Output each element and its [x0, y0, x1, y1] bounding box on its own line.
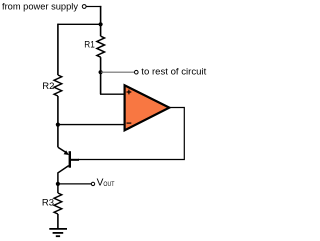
wire: R1 bottom through node B down to + input corner — [100, 57, 102, 94]
node B junction dot — [99, 70, 103, 74]
wire: R3 bottom to ground — [57, 214, 59, 228]
transistor Q1 collector lead — [58, 166, 69, 193]
wire: down to R2 top — [57, 24, 59, 75]
terminal: Vout — [91, 182, 94, 185]
wire: node A left to R2 branch — [58, 23, 101, 25]
op-amp - input mark — [127, 122, 132, 124]
wire: top rail down to R1 — [100, 6, 102, 36]
wire: node D to Vout terminal — [58, 183, 91, 185]
node C junction dot — [56, 123, 60, 127]
terminal: power supply input — [82, 5, 86, 9]
resistor R2 — [54, 75, 62, 96]
resistor R1 — [97, 36, 105, 57]
svg-text:R1: R1 — [84, 39, 95, 50]
resistor R3 — [54, 193, 62, 214]
wire: R2 bottom through node C down to emitter bend — [57, 96, 59, 147]
svg-text:to rest of circuit: to rest of circuit — [141, 67, 206, 78]
node A junction dot — [99, 22, 103, 26]
node D junction dot — [56, 182, 60, 186]
op-amp + input mark — [127, 90, 132, 95]
transistor Q1 emitter lead with arrow — [58, 147, 67, 153]
svg-text:from power supply: from power supply — [2, 2, 78, 13]
wire: op-amp output feedback loop to transistor base — [78, 108, 184, 160]
wire: into op-amp + input — [100, 93, 124, 95]
transistor Q1 base lead stub — [71, 159, 79, 161]
op-amp U1 — [125, 85, 170, 130]
wire: node B to "to rest of circuit" terminal — [101, 71, 134, 73]
svg-text:OUT: OUT — [103, 182, 114, 188]
wire: node C to op-amp - input — [58, 124, 124, 126]
svg-text:R2: R2 — [42, 81, 54, 92]
terminal: to rest of circuit — [135, 70, 139, 74]
transistor Q1 base bar — [69, 151, 71, 168]
svg-text:R3: R3 — [42, 198, 54, 209]
ground — [49, 228, 67, 230]
wire: terminal to top rail corner — [86, 6, 101, 8]
